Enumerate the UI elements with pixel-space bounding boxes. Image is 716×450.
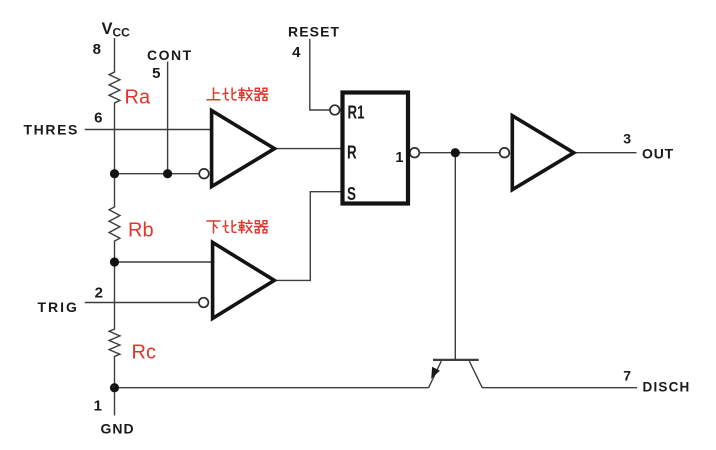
svg-text:7: 7: [623, 368, 631, 384]
svg-text:Rb: Rb: [128, 220, 154, 242]
svg-text:Rc: Rc: [132, 342, 156, 364]
svg-text:TRIG: TRIG: [38, 299, 79, 315]
svg-text:CC: CC: [113, 26, 131, 40]
svg-text:Ra: Ra: [125, 87, 151, 109]
svg-text:3: 3: [623, 131, 631, 147]
svg-text:R1: R1: [348, 103, 365, 123]
svg-text:THRES: THRES: [24, 122, 79, 138]
svg-text:1: 1: [94, 398, 102, 415]
svg-text:6: 6: [94, 110, 102, 127]
svg-text:1: 1: [395, 150, 403, 166]
svg-text:OUT: OUT: [642, 146, 674, 162]
svg-text:5: 5: [152, 65, 160, 82]
svg-text:RESET: RESET: [288, 24, 340, 40]
svg-text:8: 8: [93, 41, 101, 58]
svg-text:4: 4: [292, 44, 301, 61]
svg-text:CONT: CONT: [147, 47, 193, 63]
svg-text:GND: GND: [101, 421, 135, 437]
svg-text:S: S: [347, 184, 356, 204]
svg-text:V: V: [102, 20, 113, 38]
svg-text:R: R: [347, 143, 357, 163]
svg-text:2: 2: [95, 285, 103, 302]
svg-text:DISCH: DISCH: [643, 379, 691, 394]
